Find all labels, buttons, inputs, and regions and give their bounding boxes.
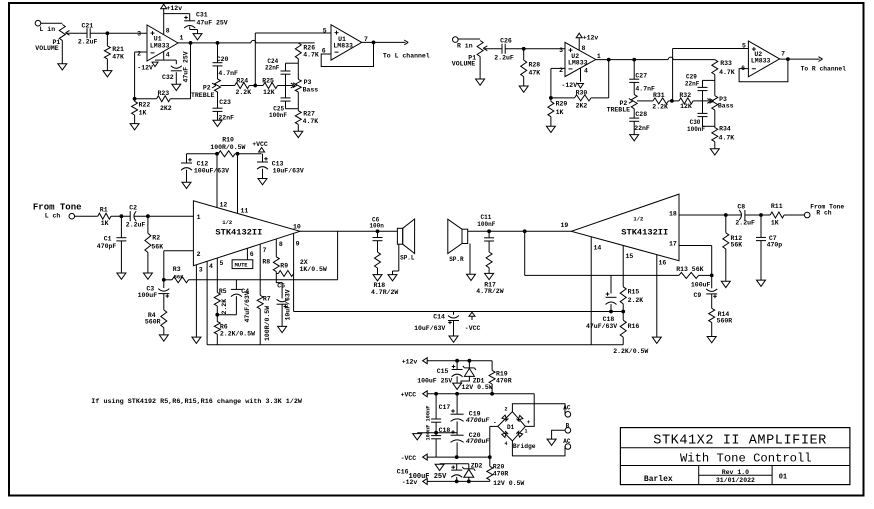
svg-text:C1: C1 [104,236,112,243]
svg-text:470R: 470R [496,378,512,385]
svg-text:5: 5 [323,28,327,35]
svg-text:18: 18 [669,210,677,217]
svg-text:+VCC: +VCC [252,141,268,148]
svg-text:3: 3 [559,47,563,54]
svg-text:15: 15 [626,253,634,260]
svg-text:C5: C5 [277,283,285,290]
svg-text:1K: 1K [771,220,779,227]
svg-text:47uF 25V: 47uF 25V [183,51,190,82]
svg-text:Bass: Bass [718,103,734,110]
svg-text:56K: 56K [731,242,743,249]
svg-text:STK41X2 II AMPLIFIER: STK41X2 II AMPLIFIER [653,433,827,448]
svg-text:2.2K/0.5W: 2.2K/0.5W [220,330,255,337]
svg-text:1K/0.5W: 1K/0.5W [300,266,327,273]
svg-text:R16: R16 [628,323,640,330]
svg-text:C18: C18 [603,316,615,323]
svg-text:10uF/63V: 10uF/63V [273,168,304,175]
svg-text:470R: 470R [493,471,509,478]
svg-text:19: 19 [561,222,569,229]
svg-text:C16: C16 [397,468,409,475]
svg-text:R8: R8 [262,259,270,266]
svg-text:100nF: 100nF [687,126,705,133]
svg-text:C2: C2 [129,205,137,212]
svg-text:+12v: +12v [583,35,599,42]
svg-text:560R: 560R [717,318,733,325]
svg-text:4.7K: 4.7K [303,118,319,125]
svg-text:12V 0.5W: 12V 0.5W [493,480,524,487]
svg-text:R25: R25 [262,78,274,85]
svg-text:SP.L: SP.L [400,254,415,261]
svg-text:R ch: R ch [816,210,831,217]
svg-text:47uF/63V: 47uF/63V [586,323,617,330]
svg-text:2.2K/0.5W: 2.2K/0.5W [613,348,648,355]
svg-text:Bass: Bass [303,86,319,93]
svg-text:100uF: 100uF [138,292,158,299]
svg-text:R32: R32 [679,92,691,99]
svg-text:-VCC: -VCC [401,455,417,462]
svg-text:31/01/2022: 31/01/2022 [716,477,755,484]
svg-text:5: 5 [742,42,746,49]
svg-text:R20: R20 [493,463,505,470]
svg-text:C26: C26 [500,37,512,44]
svg-text:4: 4 [505,441,508,447]
svg-text:2.2K: 2.2K [652,104,668,111]
svg-text:-: - [493,420,497,427]
svg-text:+12v: +12v [402,358,418,365]
svg-text:100nF: 100nF [477,221,495,228]
svg-text:2.2uF: 2.2uF [78,39,98,46]
svg-text:R21: R21 [112,46,124,53]
svg-text:4700uF: 4700uF [466,417,491,424]
svg-text:Rev 1.0: Rev 1.0 [722,469,749,476]
svg-text:R11: R11 [771,203,783,210]
svg-text:7: 7 [263,247,267,254]
svg-text:2: 2 [505,407,508,413]
svg-text:22nF: 22nF [265,65,280,72]
svg-text:P3: P3 [304,79,312,86]
svg-text:Bridge: Bridge [513,443,536,450]
svg-text:4: 4 [209,263,213,270]
svg-text:L in: L in [40,26,56,33]
svg-text:C15: C15 [437,368,449,375]
svg-text:47K: 47K [112,54,124,61]
svg-text:2K2: 2K2 [576,103,588,110]
svg-text:2.2uF: 2.2uF [126,222,146,229]
svg-text:4: 4 [166,52,170,59]
svg-text:To L channel: To L channel [383,53,430,60]
svg-text:C20: C20 [217,56,229,63]
svg-text:C30: C30 [690,119,701,126]
svg-text:47uF 25V: 47uF 25V [197,20,228,27]
svg-text:R18: R18 [374,282,386,289]
svg-text:STK4132II: STK4132II [621,228,668,238]
svg-text:4.7K: 4.7K [303,52,319,59]
svg-text:-12V: -12V [137,65,153,72]
svg-text:470pF: 470pF [97,243,117,250]
svg-text:22nF: 22nF [218,114,234,121]
svg-text:2.2uF: 2.2uF [494,55,514,62]
svg-text:47uF/63V: 47uF/63V [244,291,251,322]
svg-text:AC: AC [563,405,571,412]
svg-text:8: 8 [166,28,170,35]
svg-text:R13 56K: R13 56K [676,266,703,273]
svg-text:1/2: 1/2 [633,216,643,223]
svg-text:TREBLE: TREBLE [191,92,215,99]
svg-text:12: 12 [220,201,228,208]
svg-text:Barlex: Barlex [644,475,673,484]
svg-text:56K: 56K [174,274,185,281]
svg-text:+: + [527,419,531,426]
svg-text:R27: R27 [303,111,315,118]
svg-text:R28: R28 [529,62,541,69]
svg-text:LM833: LM833 [568,60,588,67]
svg-text:17: 17 [669,240,677,247]
svg-text:470p: 470p [767,242,783,249]
svg-text:C31: C31 [196,12,208,19]
svg-text:5: 5 [220,260,224,267]
svg-text:56K: 56K [151,243,163,250]
svg-text:100n: 100n [369,222,384,229]
svg-text:8: 8 [279,241,283,248]
svg-text:VOLUME: VOLUME [452,61,476,68]
svg-text:4.7R/2W: 4.7R/2W [476,288,503,295]
svg-text:ZD2: ZD2 [471,462,483,469]
svg-text:+12v: +12v [167,5,183,12]
svg-text:4: 4 [584,68,588,75]
svg-text:LM833: LM833 [333,43,353,50]
svg-text:R1: R1 [100,207,108,214]
svg-text:47K: 47K [529,70,541,77]
svg-text:From Tone: From Tone [33,203,82,213]
svg-text:P2: P2 [203,85,211,92]
svg-text:3: 3 [199,267,203,274]
svg-text:R26: R26 [303,44,315,51]
svg-text:R24: R24 [236,78,248,85]
svg-text:To R channel: To R channel [801,66,847,73]
svg-text:2.2K: 2.2K [236,89,252,96]
svg-text:D1: D1 [507,424,515,431]
svg-text:R23: R23 [158,90,170,97]
svg-text:12K: 12K [263,89,275,96]
svg-text:-12V: -12V [562,82,578,89]
svg-text:R29: R29 [556,101,568,108]
svg-text:10uF/63V: 10uF/63V [414,325,445,332]
svg-text:100uF 25V: 100uF 25V [417,378,452,385]
svg-text:R22: R22 [139,102,151,109]
svg-text:R34: R34 [719,125,731,132]
svg-text:12V 0.5W: 12V 0.5W [462,384,493,391]
svg-text:1K: 1K [101,220,109,227]
svg-text:MUTE: MUTE [235,263,249,269]
svg-text:100uF/63V: 100uF/63V [194,168,229,175]
svg-text:-VCC: -VCC [465,325,481,332]
svg-text:6: 6 [322,48,326,55]
svg-text:C12: C12 [197,161,209,168]
svg-text:2: 2 [197,251,201,258]
svg-text:R10: R10 [222,136,234,143]
svg-text:1: 1 [180,35,184,42]
svg-text:R31: R31 [653,92,665,99]
svg-text:STK4132II: STK4132II [215,228,262,238]
svg-text:R2: R2 [152,235,160,242]
svg-text:560R: 560R [145,319,161,326]
svg-text:2K2: 2K2 [160,105,172,112]
svg-text:4.7R/2W: 4.7R/2W [371,289,398,296]
svg-text:With Tone Controll: With Tone Controll [680,451,812,465]
svg-text:C9: C9 [694,292,702,299]
svg-text:2.2K: 2.2K [628,297,644,304]
svg-text:22nF: 22nF [685,80,700,87]
svg-text:R15: R15 [628,289,640,296]
svg-text:100R/0.5W: 100R/0.5W [264,306,271,341]
svg-text:100uF: 100uF [691,281,711,288]
svg-text:+VCC: +VCC [401,392,417,399]
svg-text:4.7K: 4.7K [719,69,735,76]
svg-text:3: 3 [137,31,141,38]
svg-text:C14: C14 [433,314,445,321]
svg-text:C21: C21 [82,23,94,30]
svg-text:C8: C8 [737,203,745,210]
svg-text:11: 11 [241,208,249,215]
svg-text:LM833: LM833 [751,58,771,65]
svg-text:22nF: 22nF [634,125,650,132]
svg-text:16: 16 [659,260,667,267]
svg-text:If using STK4192 R5,R6,R15,R1: If using STK4192 R5,R6,R15,R16 change wi… [91,398,303,406]
svg-text:12K: 12K [680,103,692,110]
svg-text:14: 14 [594,245,602,252]
svg-text:U1: U1 [154,36,162,43]
svg-text:100nF: 100nF [269,112,287,119]
svg-text:8: 8 [582,45,586,52]
svg-text:R9: R9 [280,263,288,270]
svg-text:4.7nF: 4.7nF [218,70,238,77]
svg-text:10: 10 [293,224,301,231]
svg-text:C28: C28 [635,111,647,118]
svg-text:C32: C32 [162,74,174,81]
svg-text:C23: C23 [219,99,231,106]
svg-text:R5: R5 [219,288,227,295]
svg-text:9: 9 [296,241,300,248]
svg-text:1: 1 [197,214,201,221]
svg-text:TREBLE: TREBLE [607,107,631,114]
svg-text:2.2uF: 2.2uF [735,220,755,227]
svg-text:100nF: 100nF [426,406,432,422]
svg-text:SP.R: SP.R [449,256,464,263]
svg-text:R19: R19 [496,370,508,377]
svg-text:C13: C13 [272,161,284,168]
svg-text:2X: 2X [300,259,308,266]
svg-text:R3: R3 [173,266,181,273]
svg-text:C17: C17 [439,404,451,411]
svg-text:4.7K: 4.7K [719,134,735,141]
svg-text:2.2K: 2.2K [221,299,228,315]
svg-text:AC: AC [563,438,571,445]
svg-text:01: 01 [779,474,787,482]
svg-text:LM833: LM833 [150,43,170,50]
svg-text:1/2: 1/2 [222,219,232,226]
svg-text:6: 6 [250,251,254,258]
svg-text:1K: 1K [139,110,147,117]
svg-text:C27: C27 [635,73,647,80]
svg-text:100uF 25V: 100uF 25V [409,473,448,481]
svg-text:R in: R in [457,43,473,50]
svg-text:4700uF: 4700uF [466,438,491,445]
svg-text:R30: R30 [576,90,588,97]
svg-text:R7: R7 [263,295,271,302]
svg-text:R33: R33 [720,60,732,67]
svg-text:1: 1 [525,429,528,435]
svg-text:B: B [566,422,570,429]
svg-text:7: 7 [781,51,785,58]
svg-text:L ch: L ch [45,213,61,220]
svg-text:100R/0.5W: 100R/0.5W [210,144,245,151]
svg-text:1: 1 [597,53,601,60]
svg-text:VOLUME: VOLUME [35,45,59,52]
svg-text:1K: 1K [556,109,564,116]
svg-text:10uF/63V: 10uF/63V [285,289,292,320]
